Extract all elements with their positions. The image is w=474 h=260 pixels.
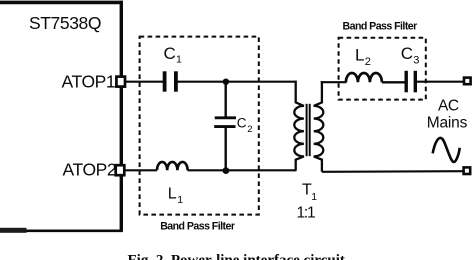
wire C1 to transformer primary top [176,81,297,83]
svg-text:ST7538Q: ST7538Q [29,13,101,33]
capacitor C1 [165,71,176,91]
capacitor C2 [214,118,236,127]
svg-text:Band Pass Filter: Band Pass Filter [343,20,418,32]
pin ATOP2 [63,159,125,179]
svg-text:1: 1 [311,191,317,203]
svg-text:L: L [355,46,364,65]
wire transformer secondary bottom to AC mains bottom terminal [322,170,463,173]
wire ATOP1 to C1 [126,81,164,83]
svg-text:2: 2 [247,124,252,135]
svg-text:AC: AC [438,97,459,114]
band pass filter box right [339,38,426,100]
label C2 [237,115,253,135]
capacitor C3 [406,71,415,93]
wire ATOP2 to L1 [125,169,158,171]
label C3 [401,44,420,67]
wire C2 branch vertical [224,82,226,117]
inductor L1 [157,162,188,170]
node junction bottom of C2 [223,167,230,174]
svg-text:ATOP2: ATOP2 [63,159,117,179]
label T1 [302,182,317,204]
svg-text:Fig. 2. Power-line interface c: Fig. 2. Power-line interface circuit [128,253,345,260]
transformer T1 secondary winding [314,81,324,172]
svg-text:C: C [401,44,413,63]
wire L2 to C3 [382,81,405,83]
wire C3 to AC mains top terminal [415,81,463,83]
wire L1 to transformer primary bottom [188,169,297,171]
svg-text:Mains: Mains [427,115,468,132]
terminal AC bottom [464,167,471,174]
svg-text:C: C [164,44,176,63]
svg-text:1: 1 [177,194,183,206]
band pass filter box left [140,37,259,215]
svg-text:ATOP1: ATOP1 [62,71,116,91]
label L1 [168,186,183,206]
label C1 [164,44,183,66]
label L2 [355,46,371,69]
terminal AC top [464,78,471,85]
svg-text:L: L [168,186,177,203]
wire transformer secondary top to L2 [321,81,347,83]
svg-text:2: 2 [365,56,371,68]
pin ATOP1 [62,71,126,91]
inductor L2 [346,73,382,82]
svg-text:C: C [237,115,247,130]
svg-text:3: 3 [413,55,419,67]
transformer T1 core [307,104,310,156]
transformer T1 primary winding [294,81,304,171]
svg-text:Band Pass Filter: Band Pass Filter [160,220,235,232]
svg-text:1: 1 [176,54,182,66]
svg-text:1:1: 1:1 [297,205,316,222]
IC block U1 ST7538Q partial outline [0,1,123,233]
node junction top of C2 [223,79,229,85]
label AC Mains [427,97,468,131]
AC mains sine wave symbol [433,138,460,162]
